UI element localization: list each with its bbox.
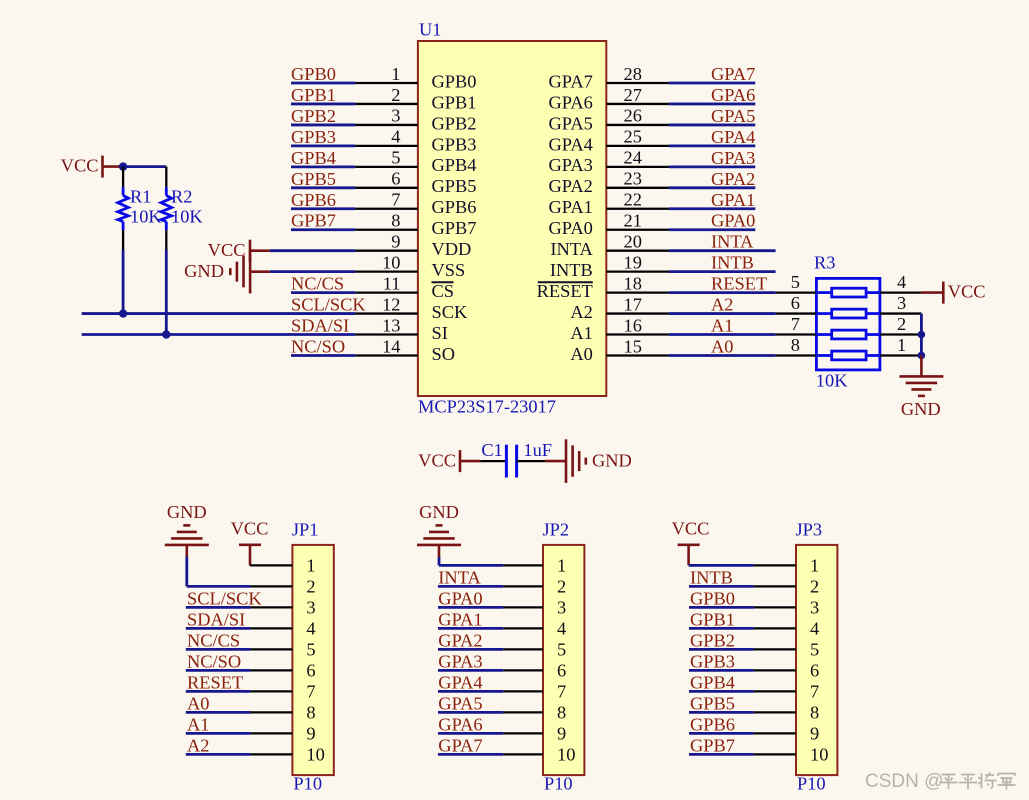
svg-text:19: 19 xyxy=(624,252,642,272)
svg-text:5: 5 xyxy=(391,148,400,168)
svg-text:GPA2: GPA2 xyxy=(438,630,482,650)
svg-text:1: 1 xyxy=(306,556,315,576)
svg-text:CSDN @: CSDN @ xyxy=(865,771,943,792)
svg-text:A0: A0 xyxy=(711,336,733,356)
svg-text:6: 6 xyxy=(306,661,315,681)
svg-text:7: 7 xyxy=(791,314,800,334)
svg-text:10K: 10K xyxy=(171,207,203,227)
svg-text:GPB5: GPB5 xyxy=(432,176,477,196)
svg-text:7: 7 xyxy=(391,190,400,210)
svg-text:10: 10 xyxy=(306,745,324,765)
svg-text:GPB2: GPB2 xyxy=(432,113,477,133)
svg-text:INTB: INTB xyxy=(550,260,593,280)
svg-text:12: 12 xyxy=(382,294,400,314)
svg-text:R2: R2 xyxy=(171,187,192,207)
svg-text:GPB4: GPB4 xyxy=(291,148,336,168)
svg-text:SI: SI xyxy=(432,323,448,343)
svg-text:VDD: VDD xyxy=(432,239,472,259)
svg-text:GPA5: GPA5 xyxy=(711,106,755,126)
svg-text:26: 26 xyxy=(624,106,642,126)
svg-text:GPB7: GPB7 xyxy=(291,211,336,231)
svg-text:INTA: INTA xyxy=(550,239,593,259)
svg-text:22: 22 xyxy=(624,190,642,210)
svg-text:GPA4: GPA4 xyxy=(711,127,755,147)
svg-text:13: 13 xyxy=(382,315,400,335)
svg-text:A0: A0 xyxy=(187,693,209,713)
svg-text:GPB1: GPB1 xyxy=(291,85,336,105)
svg-text:GPA6: GPA6 xyxy=(711,85,755,105)
svg-text:3: 3 xyxy=(810,598,819,618)
svg-text:1uF: 1uF xyxy=(523,440,552,460)
svg-text:GPA6: GPA6 xyxy=(549,92,593,112)
svg-text:A2: A2 xyxy=(187,735,209,755)
svg-text:GPB2: GPB2 xyxy=(291,106,336,126)
svg-text:GPA7: GPA7 xyxy=(711,64,755,84)
svg-text:SO: SO xyxy=(432,344,456,364)
svg-text:GPB1: GPB1 xyxy=(432,92,477,112)
svg-text:INTB: INTB xyxy=(711,253,754,273)
svg-text:GPA1: GPA1 xyxy=(438,609,482,629)
svg-text:GPB7: GPB7 xyxy=(690,735,735,755)
svg-text:4: 4 xyxy=(897,272,906,292)
svg-text:10: 10 xyxy=(557,745,575,765)
svg-text:GPB7: GPB7 xyxy=(432,218,477,238)
svg-text:GPB3: GPB3 xyxy=(291,127,336,147)
svg-text:GND: GND xyxy=(184,261,224,281)
svg-text:8: 8 xyxy=(557,703,566,723)
svg-text:VCC: VCC xyxy=(418,450,456,470)
svg-text:1: 1 xyxy=(391,64,400,84)
svg-text:GND: GND xyxy=(592,450,632,470)
svg-text:GPB3: GPB3 xyxy=(432,134,477,154)
svg-text:20: 20 xyxy=(624,231,642,251)
svg-text:3: 3 xyxy=(897,293,906,313)
svg-text:GPA7: GPA7 xyxy=(549,71,593,91)
svg-text:RESET: RESET xyxy=(711,274,767,294)
svg-text:11: 11 xyxy=(383,273,401,293)
svg-text:GPA2: GPA2 xyxy=(711,169,755,189)
svg-text:JP2: JP2 xyxy=(543,519,570,539)
svg-text:1: 1 xyxy=(897,335,906,355)
svg-text:GPA0: GPA0 xyxy=(711,211,755,231)
svg-text:1: 1 xyxy=(810,556,819,576)
svg-text:8: 8 xyxy=(391,211,400,231)
svg-text:GPA0: GPA0 xyxy=(438,588,482,608)
svg-text:10: 10 xyxy=(810,745,828,765)
svg-text:2: 2 xyxy=(306,577,315,597)
svg-text:SDA/SI: SDA/SI xyxy=(291,316,349,336)
svg-text:2: 2 xyxy=(391,85,400,105)
svg-text:C1: C1 xyxy=(481,440,502,460)
svg-text:INTA: INTA xyxy=(438,567,481,587)
svg-text:GND: GND xyxy=(419,502,459,522)
svg-text:8: 8 xyxy=(791,335,800,355)
svg-text:NC/CS: NC/CS xyxy=(187,630,240,650)
svg-text:GND: GND xyxy=(167,502,207,522)
svg-text:GPA4: GPA4 xyxy=(549,134,593,154)
svg-text:NC/SO: NC/SO xyxy=(291,336,345,356)
svg-text:VCC: VCC xyxy=(208,240,246,260)
svg-text:21: 21 xyxy=(624,211,642,231)
svg-text:28: 28 xyxy=(624,64,642,84)
svg-text:GPA5: GPA5 xyxy=(438,693,482,713)
svg-text:JP3: JP3 xyxy=(796,519,823,539)
svg-text:10K: 10K xyxy=(816,370,848,390)
svg-text:4: 4 xyxy=(391,127,400,147)
svg-text:A1: A1 xyxy=(187,714,209,734)
svg-text:SCK: SCK xyxy=(432,302,468,322)
svg-text:4: 4 xyxy=(306,619,315,639)
svg-text:23: 23 xyxy=(624,169,642,189)
svg-text:GPB2: GPB2 xyxy=(690,630,735,650)
svg-text:1: 1 xyxy=(557,556,566,576)
svg-text:VCC: VCC xyxy=(61,156,99,176)
svg-text:NC/CS: NC/CS xyxy=(291,274,344,294)
svg-text:GPA4: GPA4 xyxy=(438,672,482,692)
svg-text:GPB0: GPB0 xyxy=(690,588,735,608)
svg-text:25: 25 xyxy=(624,127,642,147)
svg-text:6: 6 xyxy=(391,169,400,189)
svg-text:U1: U1 xyxy=(419,20,441,40)
svg-text:9: 9 xyxy=(557,724,566,744)
svg-text:GPB0: GPB0 xyxy=(291,64,336,84)
svg-text:16: 16 xyxy=(624,315,642,335)
svg-text:GPB6: GPB6 xyxy=(690,714,735,734)
svg-text:18: 18 xyxy=(624,273,642,293)
svg-text:5: 5 xyxy=(810,640,819,660)
svg-text:GPB5: GPB5 xyxy=(291,169,336,189)
svg-text:GPA3: GPA3 xyxy=(438,651,482,671)
svg-text:SCL/SCK: SCL/SCK xyxy=(187,588,262,608)
svg-text:SCL/SCK: SCL/SCK xyxy=(291,295,366,315)
svg-text:GPA7: GPA7 xyxy=(438,735,482,755)
svg-text:10K: 10K xyxy=(130,207,162,227)
svg-text:6: 6 xyxy=(557,661,566,681)
svg-text:4: 4 xyxy=(557,619,566,639)
svg-text:NC/SO: NC/SO xyxy=(187,651,241,671)
svg-text:JP1: JP1 xyxy=(292,519,319,539)
svg-text:A1: A1 xyxy=(570,323,592,343)
svg-text:8: 8 xyxy=(306,703,315,723)
svg-text:A2: A2 xyxy=(711,295,733,315)
svg-text:3: 3 xyxy=(557,598,566,618)
svg-text:CS: CS xyxy=(432,281,455,301)
svg-text:5: 5 xyxy=(306,640,315,660)
svg-text:7: 7 xyxy=(306,682,315,702)
svg-text:GPA3: GPA3 xyxy=(711,148,755,168)
svg-text:7: 7 xyxy=(557,682,566,702)
svg-text:GPA0: GPA0 xyxy=(549,218,593,238)
svg-text:9: 9 xyxy=(810,724,819,744)
svg-text:VCC: VCC xyxy=(231,519,269,539)
svg-text:GPA2: GPA2 xyxy=(549,176,593,196)
svg-text:R3: R3 xyxy=(814,253,835,273)
svg-text:INTA: INTA xyxy=(711,232,754,252)
svg-text:GPA1: GPA1 xyxy=(711,190,755,210)
svg-text:RESET: RESET xyxy=(537,281,593,301)
svg-text:27: 27 xyxy=(624,85,642,105)
svg-text:GPB0: GPB0 xyxy=(432,71,477,91)
svg-text:9: 9 xyxy=(391,231,400,251)
svg-text:VCC: VCC xyxy=(672,519,710,539)
svg-text:VCC: VCC xyxy=(948,282,986,302)
svg-text:8: 8 xyxy=(810,703,819,723)
svg-text:17: 17 xyxy=(624,294,642,314)
svg-text:RESET: RESET xyxy=(187,672,243,692)
svg-text:GPA5: GPA5 xyxy=(549,113,593,133)
svg-text:14: 14 xyxy=(382,336,400,356)
svg-text:A2: A2 xyxy=(570,302,592,322)
svg-text:VSS: VSS xyxy=(432,260,466,280)
svg-text:GPB4: GPB4 xyxy=(690,672,735,692)
svg-text:GPB4: GPB4 xyxy=(432,155,477,175)
svg-text:4: 4 xyxy=(810,619,819,639)
svg-text:2: 2 xyxy=(810,577,819,597)
svg-text:P10: P10 xyxy=(293,773,322,793)
svg-text:2: 2 xyxy=(897,314,906,334)
svg-text:MCP23S17-23017: MCP23S17-23017 xyxy=(418,397,556,417)
svg-text:GPA1: GPA1 xyxy=(549,197,593,217)
svg-text:3: 3 xyxy=(391,106,400,126)
svg-text:6: 6 xyxy=(791,293,800,313)
svg-text:A0: A0 xyxy=(570,344,592,364)
svg-text:A1: A1 xyxy=(711,316,733,336)
svg-text:7: 7 xyxy=(810,682,819,702)
svg-text:GPB5: GPB5 xyxy=(690,693,735,713)
svg-text:2: 2 xyxy=(557,577,566,597)
svg-text:24: 24 xyxy=(624,148,642,168)
svg-text:5: 5 xyxy=(791,272,800,292)
svg-text:3: 3 xyxy=(306,598,315,618)
svg-text:9: 9 xyxy=(306,724,315,744)
svg-text:P10: P10 xyxy=(544,773,573,793)
svg-text:GPA3: GPA3 xyxy=(549,155,593,175)
svg-text:6: 6 xyxy=(810,661,819,681)
svg-text:R1: R1 xyxy=(130,187,151,207)
svg-text:GND: GND xyxy=(901,399,941,419)
svg-text:SDA/SI: SDA/SI xyxy=(187,609,245,629)
svg-text:10: 10 xyxy=(382,252,400,272)
svg-text:GPB1: GPB1 xyxy=(690,609,735,629)
svg-text:5: 5 xyxy=(557,640,566,660)
svg-text:15: 15 xyxy=(624,336,642,356)
svg-text:GPB6: GPB6 xyxy=(291,190,336,210)
svg-text:P10: P10 xyxy=(797,773,826,793)
svg-text:INTB: INTB xyxy=(690,567,733,587)
svg-text:GPB3: GPB3 xyxy=(690,651,735,671)
svg-text:GPB6: GPB6 xyxy=(432,197,477,217)
svg-text:GPA6: GPA6 xyxy=(438,714,482,734)
